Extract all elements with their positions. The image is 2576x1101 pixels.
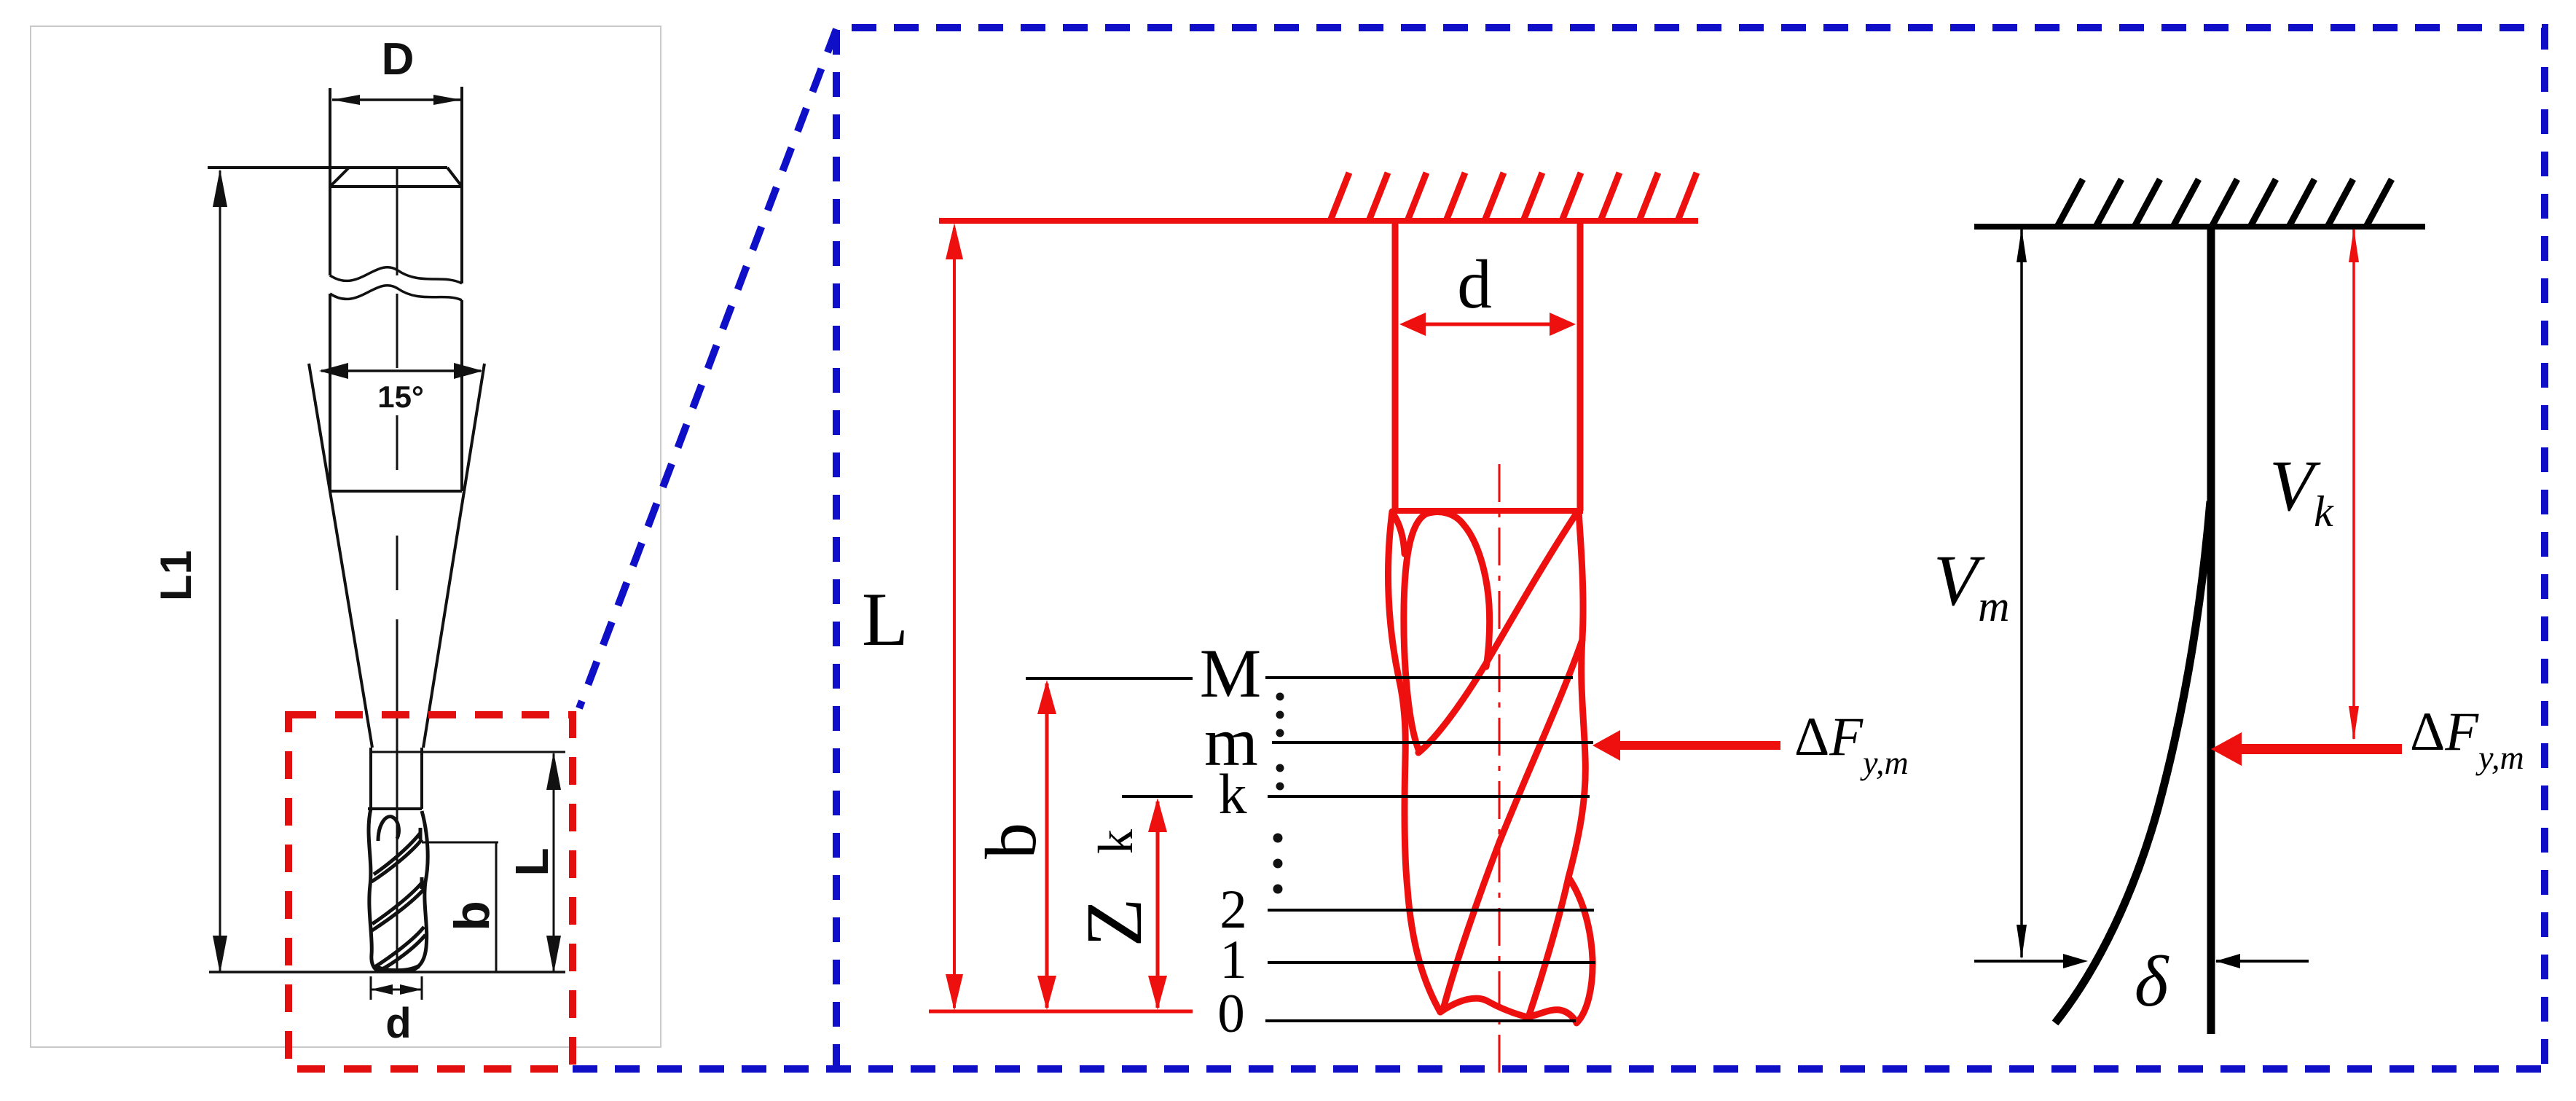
svg-text:0: 0 [1217, 984, 1245, 1044]
svg-text:d: d [385, 1000, 411, 1047]
svg-text:15°: 15° [377, 380, 424, 414]
svg-text:δ: δ [2135, 941, 2169, 1022]
svg-text:b: b [970, 823, 1051, 859]
svg-text:k: k [1088, 829, 1143, 854]
svg-text:L: L [862, 576, 908, 662]
svg-text:L1: L1 [152, 550, 200, 601]
svg-text:D: D [382, 34, 415, 85]
svg-text:Z: Z [1069, 898, 1158, 947]
svg-text:L: L [506, 847, 558, 876]
svg-text:1: 1 [1220, 930, 1247, 990]
svg-text:d: d [1457, 246, 1492, 323]
svg-text:M: M [1200, 635, 1261, 712]
svg-text:k: k [1219, 762, 1247, 826]
svg-text:b: b [444, 901, 500, 931]
